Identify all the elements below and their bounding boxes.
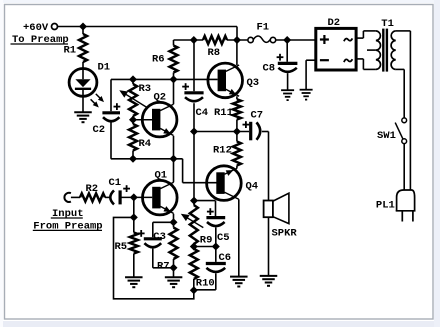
svg-text:SPKR: SPKR	[272, 228, 298, 240]
svg-text:R8: R8	[208, 47, 221, 59]
svg-text:Q3: Q3	[247, 77, 260, 89]
svg-text:R4: R4	[139, 138, 152, 150]
svg-text:C7: C7	[251, 110, 264, 122]
svg-text:C6: C6	[219, 252, 232, 264]
svg-text:C2: C2	[93, 124, 106, 136]
svg-text:SW1: SW1	[377, 130, 396, 142]
svg-text:R5: R5	[115, 241, 128, 253]
svg-text:R3: R3	[139, 83, 152, 95]
svg-text:C5: C5	[217, 232, 230, 244]
svg-text:C3: C3	[153, 231, 166, 243]
svg-text:C4: C4	[196, 107, 209, 119]
svg-text:Q2: Q2	[154, 92, 167, 104]
svg-text:R11: R11	[214, 107, 233, 119]
svg-text:PL1: PL1	[376, 200, 395, 212]
svg-text:R7: R7	[157, 260, 170, 272]
svg-text:R9: R9	[200, 235, 213, 247]
svg-text:C1: C1	[109, 177, 122, 189]
svg-text:D2: D2	[328, 17, 341, 29]
svg-text:Q4: Q4	[246, 180, 259, 192]
svg-text:R2: R2	[86, 183, 99, 195]
svg-text:R10: R10	[196, 277, 215, 289]
svg-text:R6: R6	[152, 54, 165, 66]
svg-text:T1: T1	[381, 18, 394, 30]
svg-text:+60V: +60V	[23, 22, 49, 34]
svg-text:Q1: Q1	[155, 170, 168, 182]
svg-text:C8: C8	[263, 63, 276, 75]
svg-text:R12: R12	[213, 145, 232, 157]
svg-text:D1: D1	[98, 62, 111, 74]
svg-text:F1: F1	[257, 22, 270, 34]
svg-text:R1: R1	[64, 45, 77, 57]
